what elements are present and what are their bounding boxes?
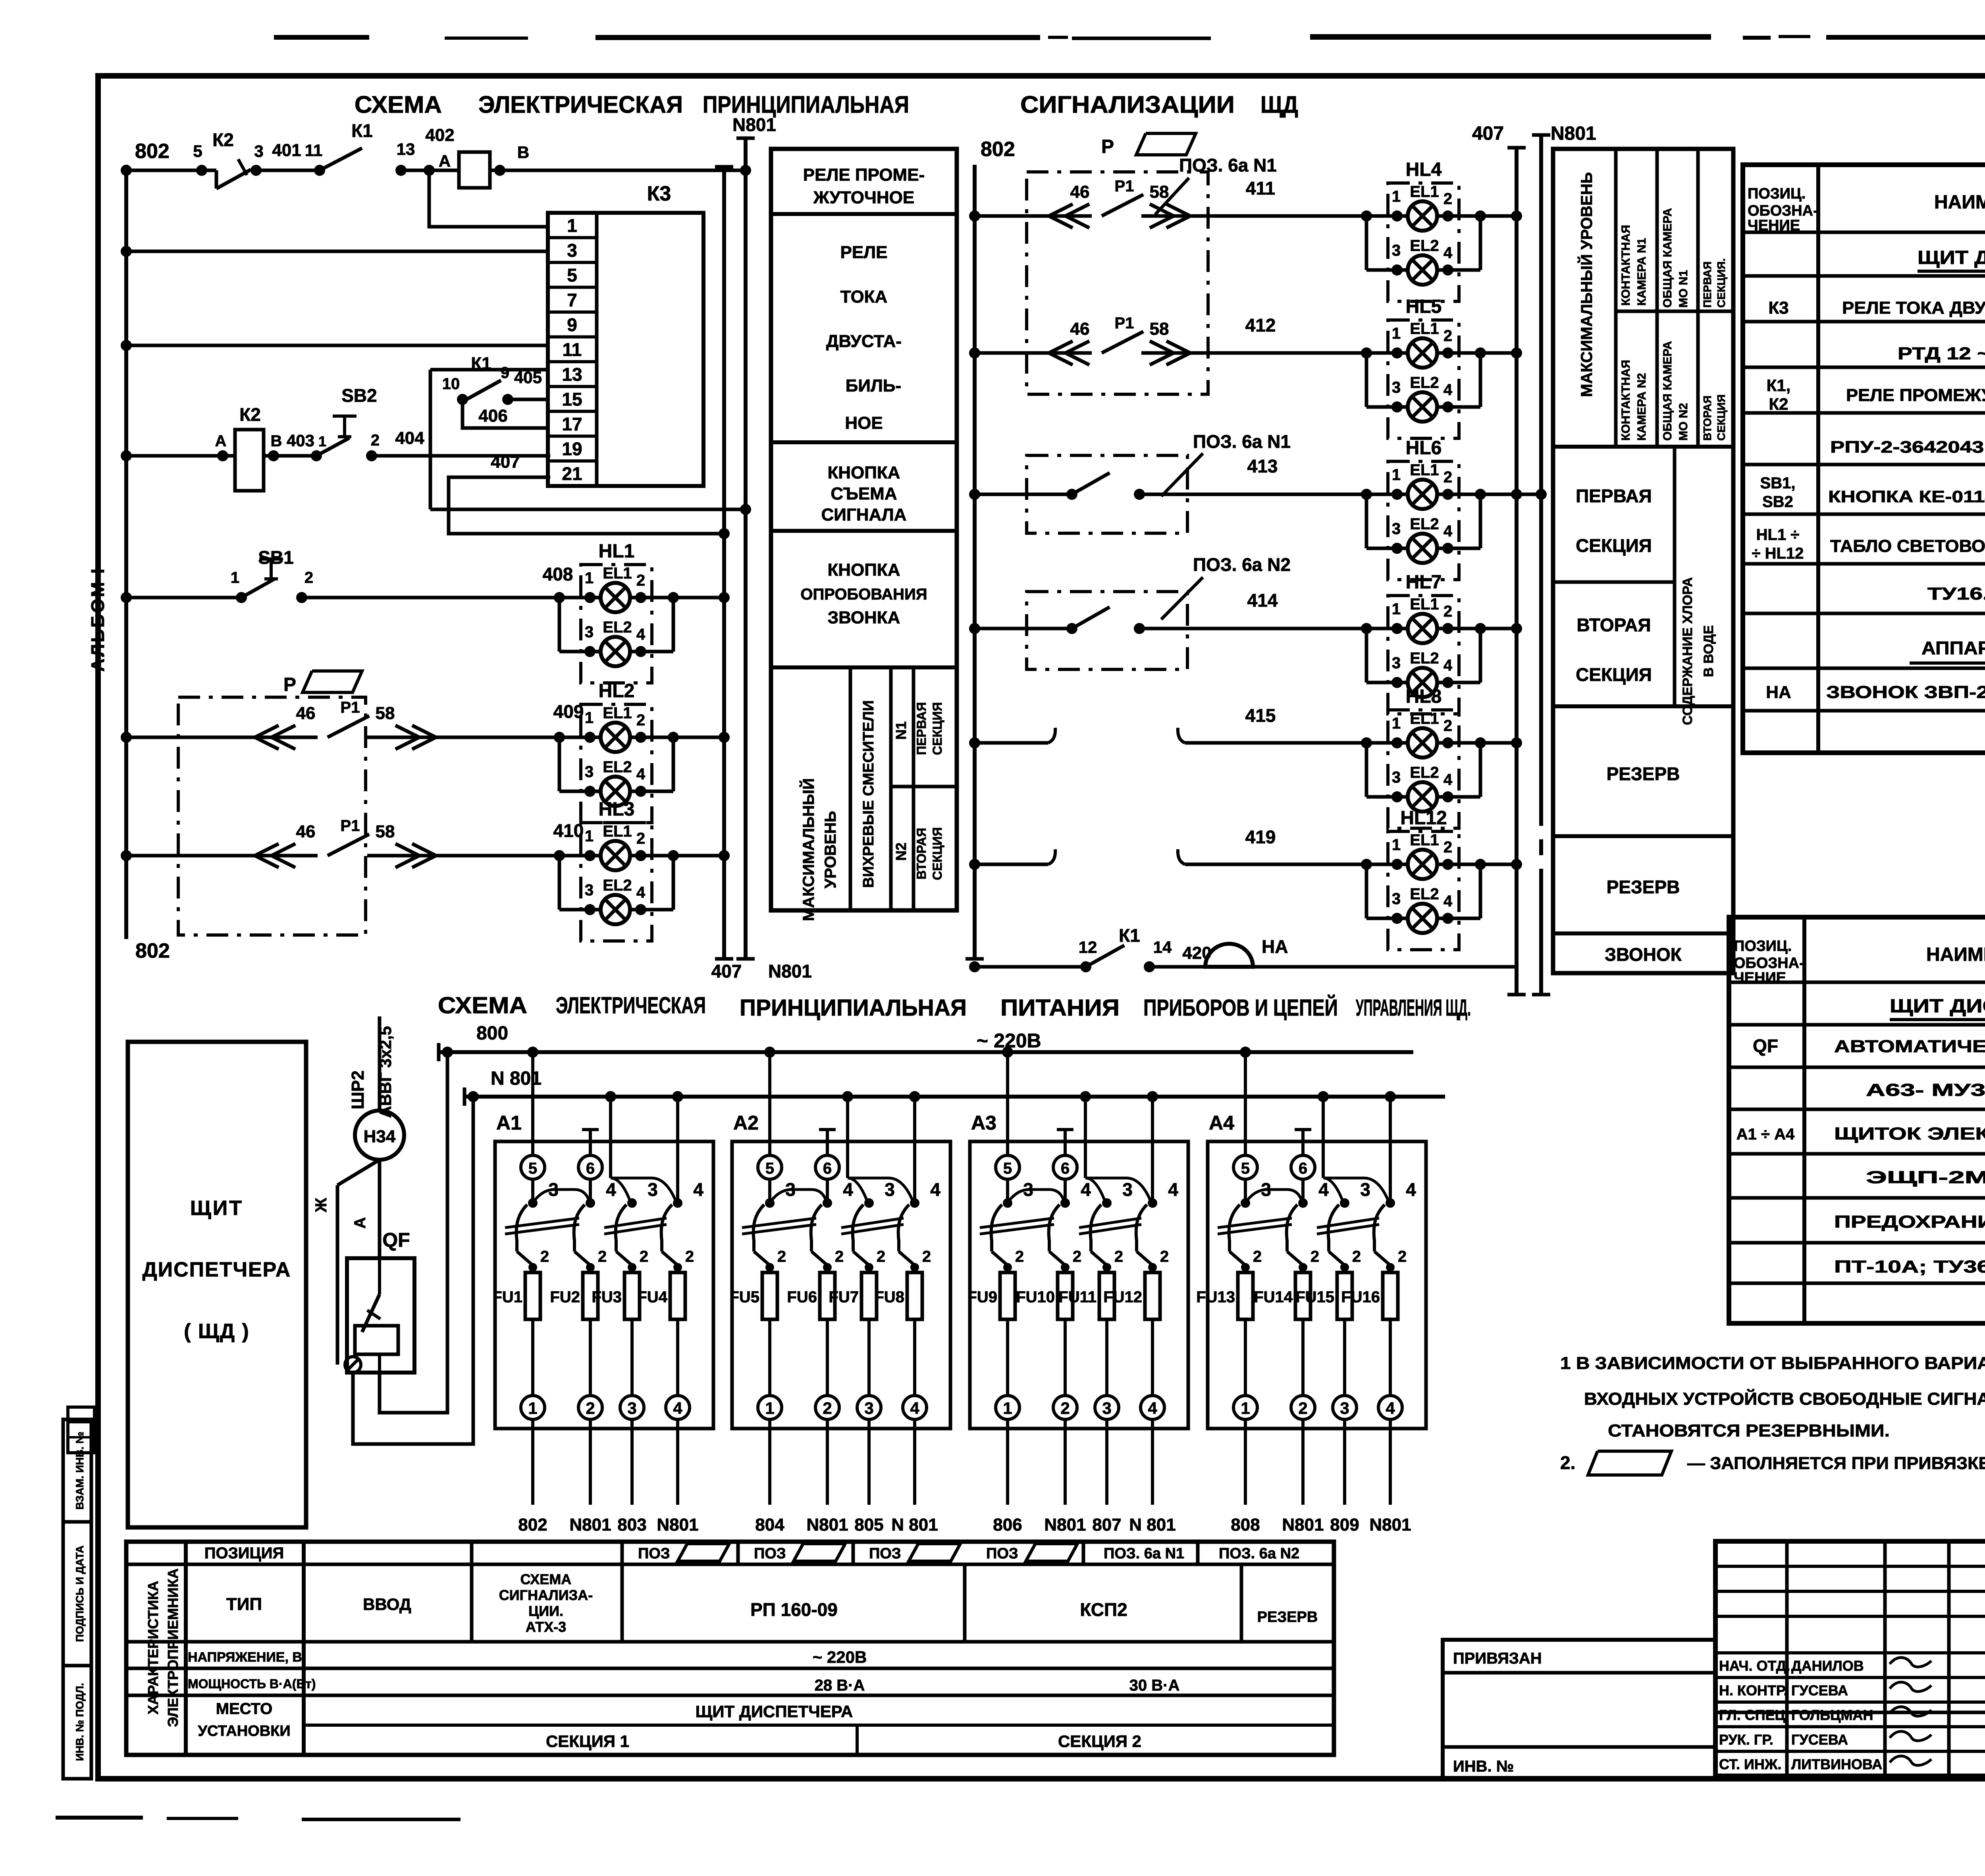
wire row 403-404 (K2 coil row) — [121, 450, 550, 461]
svg-text:НL6: НL6 — [1406, 438, 1442, 459]
svg-text:2: 2 — [685, 1248, 694, 1265]
spec2 row predohranitel — [1834, 1211, 1985, 1238]
svg-text:ПРИВЯЗАН: ПРИВЯЗАН — [1453, 1650, 1542, 1667]
svg-text:КАМЕРА N1: КАМЕРА N1 — [1635, 238, 1648, 306]
svg-text:FU5: FU5 — [729, 1288, 759, 1306]
wire feed А1 pole4 from N801 — [676, 1097, 679, 1203]
wire from box to N801 — [430, 504, 751, 515]
svg-text:3: 3 — [864, 1399, 873, 1417]
svg-text:СХЕМА: СХЕМА — [520, 1571, 572, 1587]
svg-text:1: 1 — [318, 433, 326, 449]
svg-text:ЗВОНОК ЗВП-220: ЗВОНОК ЗВП-220 — [1826, 683, 1985, 702]
svg-text:EL2: EL2 — [1410, 237, 1439, 255]
svg-text:ТУ16. 535. 424-79.: ТУ16. 535. 424-79. — [1927, 584, 1985, 603]
svg-text:СИГНАЛИЗА-: СИГНАЛИЗА- — [499, 1587, 593, 1603]
svg-text:В: В — [271, 432, 282, 450]
title block signatures — [1890, 1658, 1931, 1766]
fuses of А2 — [729, 1248, 931, 1396]
wire row 420 (bell) — [969, 961, 1517, 972]
svg-text:2: 2 — [1443, 327, 1452, 345]
svg-text:2: 2 — [1073, 1248, 1081, 1265]
svg-text:ПОЗ. 6а N2: ПОЗ. 6а N2 — [1219, 1545, 1299, 1562]
svg-text:СТАНОВЯТСЯ РЕЗЕРВНЫМИ.: СТАНОВЯТСЯ РЕЗЕРВНЫМИ. — [1608, 1421, 1890, 1440]
svg-text:FU3: FU3 — [592, 1288, 622, 1306]
svg-text:ПОДПИСЬ И ДАТА: ПОДПИСЬ И ДАТА — [74, 1545, 86, 1642]
svg-text:11: 11 — [305, 141, 322, 160]
svg-text:ПРИБОРОВ И ЦЕПЕЙ: ПРИБОРОВ И ЦЕПЕЙ — [1143, 995, 1338, 1021]
svg-text:1: 1 — [1392, 188, 1401, 205]
svg-text:414: 414 — [1247, 590, 1278, 611]
wire HL3 to bus 407 — [673, 854, 724, 858]
middle table lower columns — [799, 667, 957, 921]
svg-text:FU4: FU4 — [637, 1288, 667, 1306]
svg-text:2: 2 — [1310, 1248, 1319, 1265]
svg-text:МО N2: МО N2 — [1677, 403, 1690, 441]
svg-text:3: 3 — [1340, 1399, 1349, 1417]
wire HL2 to bus 407 — [673, 736, 724, 739]
note 1 text — [1560, 1353, 1985, 1440]
svg-text:4: 4 — [843, 1179, 853, 1200]
svg-text:ЛИТВИНОВА: ЛИТВИНОВА — [1791, 1756, 1882, 1772]
privyazan box strip — [1443, 1640, 1715, 1779]
middle legend table — [771, 149, 957, 910]
svg-text:N801: N801 — [1551, 123, 1596, 144]
output terminals of А4 — [1233, 1396, 1402, 1505]
svg-text:5: 5 — [567, 265, 577, 285]
svg-text:ИНВ. № ПОДЛ.: ИНВ. № ПОДЛ. — [74, 1683, 86, 1761]
wire row 419 (reserve, broken) — [969, 827, 1366, 870]
svg-text:3: 3 — [1392, 890, 1401, 908]
contact row 413 — [1066, 473, 1145, 500]
svg-text:РУК. ГР.: РУК. ГР. — [1719, 1731, 1773, 1748]
svg-text:ЩИТ ДИСПЕТЧЕРА ЩД: ЩИТ ДИСПЕТЧЕРА ЩД — [1918, 247, 1985, 268]
right header strip table — [1553, 149, 1733, 973]
svg-text:3: 3 — [885, 1179, 895, 1200]
fuses of А1 — [492, 1248, 694, 1396]
svg-text:ЗВОНОК: ЗВОНОК — [1605, 944, 1682, 965]
svg-text:EL2: EL2 — [603, 877, 632, 894]
svg-text:А: А — [439, 152, 451, 170]
svg-text:3: 3 — [1102, 1399, 1111, 1417]
box of telemetry contacts P (left) — [178, 697, 366, 935]
svg-text:Р1: Р1 — [1115, 314, 1134, 332]
terminal 6 of А2 — [815, 1155, 839, 1179]
svg-text:МЕСТО: МЕСТО — [216, 1700, 272, 1718]
svg-text:ПОЗ. 6а N1: ПОЗ. 6а N1 — [1193, 431, 1291, 452]
svg-text:46: 46 — [1070, 182, 1090, 202]
signal lamp unit НL3 (EL1,EL2) — [554, 799, 679, 941]
svg-text:809: 809 — [1330, 1515, 1359, 1535]
svg-text:4: 4 — [1148, 1399, 1157, 1417]
svg-text:НL12: НL12 — [1400, 808, 1447, 829]
svg-text:2: 2 — [640, 1248, 648, 1265]
power panel А2 — [729, 1047, 950, 1535]
svg-text:РЕЛЕ ПРОМЕЖУТОЧНОЕ: РЕЛЕ ПРОМЕЖУТОЧНОЕ — [1846, 386, 1985, 405]
svg-text:405: 405 — [514, 368, 542, 387]
scan artifact bottom-left marks — [56, 1816, 461, 1821]
svg-text:FU15: FU15 — [1295, 1288, 1334, 1306]
signal lamp unit НL2 (EL1,EL2) — [554, 681, 679, 823]
node 401 — [254, 141, 322, 160]
svg-text:СЕКЦИЯ.: СЕКЦИЯ. — [1715, 258, 1727, 308]
svg-text:2.: 2. — [1560, 1452, 1575, 1473]
svg-text:АЛЬБОМ I: АЛЬБОМ I — [87, 567, 108, 672]
svg-text:СЕКЦИЯ 2: СЕКЦИЯ 2 — [1058, 1732, 1141, 1751]
svg-text:ПОЗИЦ.: ПОЗИЦ. — [1734, 938, 1792, 954]
svg-text:А1: А1 — [496, 1112, 522, 1134]
signal lamp unit НL5 (EL1,EL2) — [1361, 296, 1486, 438]
title: schema electricheskaya principialnaya signalizacii ShchD — [355, 91, 1298, 118]
svg-text:407: 407 — [1472, 123, 1504, 144]
svg-text:FU9: FU9 — [967, 1288, 997, 1306]
svg-text:КОНТАКТНАЯ: КОНТАКТНАЯ — [1619, 360, 1632, 441]
svg-text:9: 9 — [501, 364, 509, 382]
svg-text:ЗВОНКА: ЗВОНКА — [828, 608, 900, 627]
svg-text:1: 1 — [585, 709, 594, 727]
wire stub А4 pole2 — [1301, 1130, 1305, 1155]
svg-text:N801: N801 — [732, 114, 776, 135]
output wire labels of А4 — [1231, 1515, 1411, 1535]
svg-text:РЕЗЕРВ: РЕЗЕРВ — [1607, 877, 1680, 897]
svg-text:ЩИТОК ЭЛЕКТРОПИТАНИЯ: ЩИТОК ЭЛЕКТРОПИТАНИЯ — [1834, 1124, 1985, 1143]
ground symbol at QF — [345, 1357, 361, 1373]
switch contacts of А1 — [505, 1178, 703, 1265]
svg-text:СТ. ИНЖ.: СТ. ИНЖ. — [1719, 1756, 1781, 1772]
svg-text:К1: К1 — [1119, 925, 1140, 946]
svg-text:1: 1 — [585, 569, 594, 587]
switch contacts of А4 — [1218, 1178, 1416, 1265]
wire rail to terminal 3 (row 2) — [121, 246, 548, 257]
svg-text:58: 58 — [376, 704, 395, 723]
svg-text:КНОПКА КЕ-01143 ИСП.2 ТУ16.: КНОПКА КЕ-01143 ИСП.2 ТУ16.526.407-79 — [1828, 487, 1985, 506]
svg-text:EL1: EL1 — [603, 823, 632, 840]
svg-text:3: 3 — [1392, 520, 1401, 538]
svg-text:401: 401 — [272, 141, 301, 160]
svg-text:800: 800 — [476, 1023, 508, 1044]
spec1 row RTD12 — [1898, 344, 1985, 363]
svg-text:К2: К2 — [1769, 395, 1788, 413]
svg-text:N801: N801 — [1282, 1515, 1324, 1535]
svg-text:13: 13 — [397, 140, 415, 158]
bus N801 (power) — [464, 1068, 1445, 1106]
svg-text:2: 2 — [586, 1399, 595, 1417]
svg-text:3: 3 — [585, 623, 594, 641]
svg-text:1: 1 — [1392, 466, 1401, 484]
bus N801 (right) — [1532, 123, 1596, 995]
panel box ShchD (Shchit dispetchera) — [128, 1042, 306, 1527]
svg-text:15: 15 — [562, 389, 582, 410]
spec1 row SB1 SB2 — [1760, 474, 1985, 511]
svg-text:А: А — [351, 1217, 369, 1229]
svg-text:НА: НА — [1262, 936, 1288, 957]
svg-text:А3: А3 — [971, 1112, 996, 1134]
wire Zh branch — [312, 1160, 380, 1365]
svg-text:EL1: EL1 — [1410, 710, 1439, 727]
svg-text:РЕЗЕРВ: РЕЗЕРВ — [1257, 1609, 1318, 1625]
svg-text:1: 1 — [528, 1399, 537, 1417]
svg-text:НL4: НL4 — [1406, 159, 1442, 180]
svg-text:46: 46 — [296, 704, 316, 723]
svg-text:ПОЗ. 6а N1: ПОЗ. 6а N1 — [1179, 155, 1277, 175]
svg-text:58: 58 — [376, 822, 395, 841]
wire feed А3 pole1 from 800 — [1006, 1052, 1009, 1155]
margin box Inv N podl — [63, 1666, 91, 1779]
svg-text:2: 2 — [304, 569, 313, 586]
spec2 row QF — [1753, 1035, 1985, 1056]
svg-text:404: 404 — [395, 428, 424, 448]
output terminals of А3 — [996, 1396, 1164, 1505]
svg-text:РЕЛЕ: РЕЛЕ — [840, 243, 888, 262]
svg-text:EL2: EL2 — [603, 758, 632, 776]
svg-text:НА: НА — [1766, 683, 1791, 702]
power panel А1 — [492, 1047, 713, 1535]
svg-text:ТАБЛО СВЕТОВОЕ ТСБ-Ш-У3-01: ТАБЛО СВЕТОВОЕ ТСБ-Ш-У3-01 — [1830, 536, 1985, 556]
wires lamps to bus 407 (right) — [1480, 210, 1547, 870]
svg-text:FU12: FU12 — [1103, 1288, 1142, 1306]
wire box of K1 auxiliary contact — [430, 370, 548, 509]
wire stub А3 pole2 — [1064, 1130, 1067, 1155]
svg-text:ПРЕДОХРАНИТЕЛЬ ТРУБЧАТЫЙ: ПРЕДОХРАНИТЕЛЬ ТРУБЧАТЫЙ — [1834, 1211, 1985, 1232]
svg-text:ЭЛЕКТРОПРИЕМНИКА: ЭЛЕКТРОПРИЕМНИКА — [165, 1568, 181, 1727]
svg-text:ПТ-10А; ТУ36.1101-71, ~ 250В: ПТ-10А; ТУ36.1101-71, ~ 250В. — [1834, 1257, 1985, 1276]
svg-text:EL2: EL2 — [1410, 650, 1439, 667]
svg-text:802: 802 — [135, 939, 170, 962]
svg-text:21: 21 — [562, 463, 582, 484]
svg-text:2: 2 — [877, 1248, 885, 1265]
svg-text:3: 3 — [627, 1399, 636, 1417]
svg-text:EL2: EL2 — [603, 619, 632, 636]
svg-text:А2: А2 — [733, 1112, 759, 1134]
svg-text:ЩИТ ДИСПЕТЧЕРА ( ЩД ): ЩИТ ДИСПЕТЧЕРА ( ЩД ) — [1890, 996, 1985, 1017]
svg-text:НL2: НL2 — [599, 681, 635, 702]
svg-text:ПОЗ: ПОЗ — [986, 1545, 1018, 1562]
spec2 row: Shchit dispetchera (ShchD) — [1890, 996, 1985, 1020]
bus N801 (left) — [732, 114, 812, 981]
wire row 411 — [969, 178, 1366, 222]
svg-text:6: 6 — [823, 1160, 832, 1177]
wire A branch — [351, 1160, 380, 1258]
spec2 row PT-10A — [1834, 1247, 1985, 1285]
svg-text:EL2: EL2 — [1410, 515, 1439, 533]
svg-text:СЕКЦИЯ: СЕКЦИЯ — [930, 827, 944, 880]
signal lamp unit НL12 (EL1,EL2) — [1361, 808, 1486, 950]
svg-text:СХЕМА: СХЕМА — [355, 91, 442, 118]
svg-text:КСП2: КСП2 — [1080, 1599, 1127, 1620]
svg-text:58: 58 — [1150, 319, 1169, 339]
svg-text:17: 17 — [562, 414, 582, 434]
svg-text:19: 19 — [562, 439, 582, 459]
svg-text:Р1: Р1 — [341, 699, 360, 716]
svg-text:QF: QF — [1753, 1035, 1778, 1056]
svg-text:Н34: Н34 — [364, 1127, 396, 1146]
svg-text:1: 1 — [765, 1399, 774, 1417]
svg-text:ПОЗ: ПОЗ — [869, 1545, 901, 1562]
svg-text:N801: N801 — [1369, 1515, 1411, 1535]
svg-text:ПОЗИЦИЯ: ПОЗИЦИЯ — [204, 1544, 284, 1562]
svg-text:ВВОД: ВВОД — [363, 1595, 411, 1614]
svg-text:46: 46 — [1070, 319, 1090, 339]
svg-text:1: 1 — [567, 215, 577, 236]
svg-text:ВХОДНЫХ УСТРОЙСТВ СВОБОДНЫЕ: ВХОДНЫХ УСТРОЙСТВ СВОБОДНЫЕ СИГНАЛЫ — [1584, 1388, 1985, 1409]
wire feed А3 pole3 from N801 — [1084, 1097, 1087, 1178]
svg-text:2: 2 — [1253, 1248, 1262, 1265]
button SB1 with contact — [231, 547, 313, 603]
svg-text:6: 6 — [1299, 1160, 1307, 1177]
svg-text:СЕКЦИЯ: СЕКЦИЯ — [1576, 664, 1652, 685]
svg-text:ДАНИЛОВ: ДАНИЛОВ — [1791, 1658, 1864, 1674]
svg-text:EL1: EL1 — [1410, 461, 1439, 479]
signal lamp unit НL1 (EL1,EL2) — [554, 541, 679, 683]
bus 407 (left) — [711, 167, 742, 981]
lamp H34 — [355, 1016, 404, 1160]
wire row 415 (reserve, broken) — [969, 705, 1366, 748]
svg-text:УПРАВЛЕНИЯ ЩД.: УПРАВЛЕНИЯ ЩД. — [1356, 995, 1471, 1021]
svg-text:СИГНАЛА: СИГНАЛА — [821, 505, 906, 524]
wire 407 from terminal 21 — [449, 452, 730, 539]
svg-text:11: 11 — [563, 339, 582, 360]
wire row 409 — [121, 701, 584, 743]
svg-text:3: 3 — [1392, 769, 1401, 786]
svg-text:СЕКЦИЯ: СЕКЦИЯ — [930, 702, 944, 755]
svg-text:SВ2: SВ2 — [341, 385, 377, 406]
wire feed А4 pole3 from N801 — [1322, 1097, 1325, 1178]
svg-text:409: 409 — [553, 701, 584, 722]
signal lamp unit НL4 (EL1,EL2) — [1361, 159, 1486, 301]
wire stub А1 pole2 — [589, 1130, 592, 1155]
svg-text:ПЕРВАЯ: ПЕРВАЯ — [914, 702, 929, 755]
load characteristics table — [126, 1542, 1334, 1755]
contact K2 (NC) on row 1 — [193, 129, 262, 189]
svg-text:4: 4 — [693, 1179, 703, 1200]
svg-text:12: 12 — [1079, 938, 1097, 956]
label poz 6a N1 (row 413) — [1161, 431, 1291, 496]
svg-text:5: 5 — [765, 1160, 774, 1177]
svg-text:EL2: EL2 — [1410, 764, 1439, 781]
terminal 5 of А2 — [758, 1155, 782, 1179]
wire feed А2 pole1 from 800 — [768, 1052, 771, 1155]
svg-text:Р1: Р1 — [341, 817, 360, 835]
svg-text:806: 806 — [993, 1515, 1022, 1535]
svg-text:КАМЕРА N2: КАМЕРА N2 — [1635, 373, 1648, 441]
svg-text:СОДЕРЖАНИЕ ХЛОРА: СОДЕРЖАНИЕ ХЛОРА — [1680, 577, 1695, 725]
svg-text:ПОЗ. 6а N2: ПОЗ. 6а N2 — [1193, 554, 1291, 575]
svg-text:МАКСИМАЛЬНЫЙ: МАКСИМАЛЬНЫЙ — [799, 778, 817, 921]
svg-text:QF: QF — [382, 1229, 410, 1251]
svg-text:5: 5 — [528, 1160, 537, 1177]
svg-text:EL1: EL1 — [1410, 596, 1439, 613]
svg-text:N 801: N 801 — [891, 1515, 938, 1535]
svg-text:СИГНАЛИЗАЦИИ: СИГНАЛИЗАЦИИ — [1020, 91, 1235, 118]
svg-text:РЕЛЕ ПРОМЕ-: РЕЛЕ ПРОМЕ- — [803, 165, 925, 185]
svg-text:ХАРАКТЕРИСТИКА: ХАРАКТЕРИСТИКА — [145, 1581, 161, 1715]
output wire labels of А2 — [755, 1515, 938, 1535]
svg-text:4: 4 — [673, 1399, 682, 1417]
svg-text:FU10: FU10 — [1016, 1288, 1055, 1306]
svg-text:БИЛЬ-: БИЛЬ- — [846, 376, 901, 395]
svg-text:СЪЕМА: СЪЕМА — [831, 484, 897, 503]
svg-text:3: 3 — [1392, 242, 1401, 259]
svg-text:ПЕРВАЯ: ПЕРВАЯ — [1576, 486, 1652, 506]
svg-text:N801: N801 — [569, 1515, 611, 1535]
contact P1 row 410 — [254, 817, 437, 868]
terminal 5 of А4 — [1233, 1155, 1257, 1179]
svg-text:803: 803 — [617, 1515, 646, 1535]
svg-text:3: 3 — [254, 142, 263, 160]
bottom table row Tip values — [363, 1571, 1318, 1635]
svg-text:FU14: FU14 — [1254, 1288, 1293, 1306]
svg-text:6: 6 — [1061, 1160, 1070, 1177]
svg-text:1: 1 — [1392, 325, 1401, 342]
svg-text:EL1: EL1 — [1410, 831, 1439, 849]
svg-text:НL1: НL1 — [599, 541, 635, 562]
wire stub А2 pole2 — [826, 1130, 829, 1155]
svg-text:АВТОМАТИЧЕСКИЙ ВЫКЛЮЧАТЕЛЬ: АВТОМАТИЧЕСКИЙ ВЫКЛЮЧАТЕЛЬ — [1834, 1036, 1985, 1056]
svg-text:6: 6 — [586, 1160, 595, 1177]
svg-text:FU13: FU13 — [1196, 1288, 1235, 1306]
svg-text:СЕКЦИЯ: СЕКЦИЯ — [1715, 394, 1727, 441]
circuit breaker QF — [347, 1229, 414, 1373]
svg-text:N1: N1 — [893, 721, 909, 740]
svg-text:РП 160-09: РП 160-09 — [750, 1599, 838, 1620]
output terminals of А1 — [521, 1396, 690, 1505]
label poz 6a N2 (row 414) — [1161, 554, 1291, 619]
title: schema pitaniya priborov i cepej upravleniya ShchD — [438, 993, 1471, 1021]
wire feed А4 pole1 from 800 — [1244, 1052, 1247, 1155]
svg-text:ИНВ. №: ИНВ. № — [1453, 1758, 1514, 1775]
svg-text:4: 4 — [1443, 771, 1453, 789]
svg-text:412: 412 — [1245, 315, 1276, 335]
svg-text:3: 3 — [1360, 1179, 1370, 1200]
svg-text:3: 3 — [567, 240, 577, 261]
bus 802 (right) — [966, 138, 1015, 959]
svg-text:4: 4 — [1443, 523, 1453, 540]
svg-text:НL5: НL5 — [1406, 296, 1442, 317]
bus 800 (phase) — [439, 1023, 1413, 1061]
margin box doc rows — [68, 1407, 94, 1453]
svg-text:ПЕРВАЯ: ПЕРВАЯ — [1701, 261, 1713, 308]
output terminals of А2 — [758, 1396, 927, 1505]
svg-text:N801: N801 — [768, 961, 812, 981]
svg-text:НL1 ÷: НL1 ÷ — [1756, 526, 1800, 544]
svg-text:402: 402 — [425, 125, 454, 145]
svg-text:1: 1 — [231, 569, 239, 586]
svg-text:7: 7 — [567, 290, 577, 310]
svg-text:N801: N801 — [1044, 1515, 1086, 1535]
svg-text:2: 2 — [1398, 1248, 1407, 1265]
svg-text:РТД 12 ~ 220В: РТД 12 ~ 220В — [1898, 344, 1985, 363]
svg-text:Ж: Ж — [312, 1197, 330, 1213]
fuses of А4 — [1196, 1248, 1407, 1396]
svg-text:403: 403 — [287, 431, 314, 450]
svg-text:SВ2: SВ2 — [1762, 493, 1793, 511]
signal lamp unit НL8 (EL1,EL2) — [1361, 686, 1486, 828]
svg-text:ЭЛЕКТРИЧЕСКАЯ: ЭЛЕКТРИЧЕСКАЯ — [478, 91, 683, 118]
svg-text:EL2: EL2 — [1410, 374, 1439, 391]
svg-text:К3: К3 — [1768, 298, 1788, 318]
svg-text:( ЩД ): ( ЩД ) — [184, 1320, 250, 1343]
svg-text:FU6: FU6 — [787, 1288, 817, 1306]
svg-text:НОЕ: НОЕ — [845, 413, 883, 433]
svg-text:3: 3 — [1392, 379, 1401, 396]
svg-text:58: 58 — [1150, 182, 1169, 202]
svg-text:А: А — [215, 432, 227, 450]
svg-text:28 В·А: 28 В·А — [815, 1677, 865, 1694]
svg-text:4: 4 — [1443, 657, 1453, 674]
wire 406 — [463, 399, 548, 428]
svg-text:ЭЩП-2М ТУ36.1270-73: ЭЩП-2М ТУ36.1270-73 — [1866, 1168, 1985, 1187]
margin box Podpis i data — [63, 1522, 91, 1666]
svg-text:411: 411 — [1246, 178, 1275, 199]
